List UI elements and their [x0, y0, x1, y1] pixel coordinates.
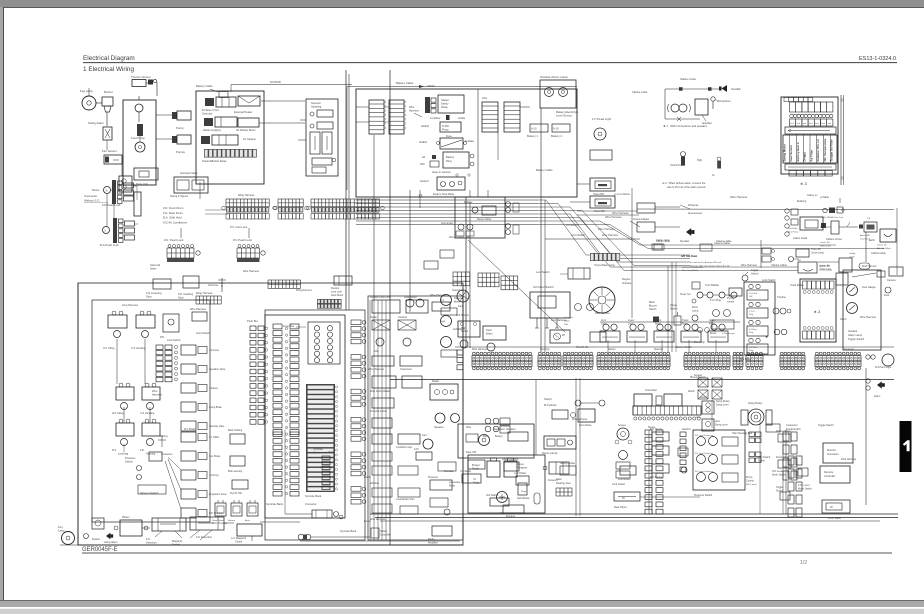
svg-text:H.P Litting: H.P Litting [112, 412, 124, 415]
svg-text:Symride Back: Symride Back [340, 529, 357, 533]
svg-text:Jack Barties: Jack Barties [517, 497, 530, 500]
svg-text:Twin Ballast: Twin Ballast [705, 283, 719, 287]
svg-text:★: ★ [765, 335, 768, 339]
svg-text:Room Lamps: Room Lamps [542, 451, 558, 455]
svg-text:F.D Level Detection: F.D Level Detection [695, 434, 714, 437]
svg-text:Wireout Switch: Wireout Switch [140, 491, 159, 495]
svg-text:Lift Switch: Lift Switch [566, 223, 579, 227]
svg-text:Lower JIb: Lower JIb [820, 241, 830, 244]
svg-text:swing alarm: swing alarm [104, 541, 117, 544]
svg-text:High: High [697, 159, 703, 162]
svg-text:1.H Head Light: 1.H Head Light [592, 117, 611, 121]
svg-text:F.D.: F.D. [140, 449, 145, 452]
svg-text:F.D Level Detection: F.D Level Detection [695, 452, 714, 455]
svg-text:Cabine Cube: Cabine Cube [680, 77, 697, 81]
svg-text:Radio: Radio [370, 315, 377, 319]
svg-text:Soquet: Soquet [618, 424, 626, 427]
svg-text:Wiper: Wiper [486, 333, 493, 336]
svg-text:F.D. Pearl Lock: F.D. Pearl Lock [164, 238, 184, 242]
svg-text:Swing 2-Speed: Swing 2-Speed [170, 194, 188, 198]
svg-text:A-Mile: A-Mile [458, 117, 466, 120]
svg-text:bed: bed [797, 123, 800, 125]
svg-text:Limb Switch: Limb Switch [762, 279, 776, 282]
svg-text:Drngty: Drngty [803, 152, 807, 162]
svg-text:Wire Harness: Wire Harness [741, 263, 758, 267]
svg-text:Horn: Horn [715, 420, 721, 423]
svg-text:Antenna: Antenna [208, 283, 218, 287]
svg-text:Toggle Switch: Toggle Switch [818, 424, 834, 427]
svg-text:F.D Level Detection: F.D Level Detection [695, 470, 714, 473]
svg-text:Remote: Remote [824, 470, 834, 474]
svg-text:10A: 10A [374, 349, 379, 353]
svg-text:Camera: Camera [887, 279, 896, 282]
svg-text:G.I 2/Sifle: G.I 2/Sifle [209, 437, 220, 439]
svg-text:Symride Back: Symride Back [266, 502, 284, 506]
svg-text:A.M. Process: A.M. Process [212, 522, 228, 525]
svg-text:Trayline: Trayline [777, 296, 786, 299]
svg-text:Ring: Ring [446, 159, 452, 163]
svg-text:Pump: Pump [176, 126, 184, 130]
svg-text:E.B. Property: E.B. Property [209, 512, 224, 515]
svg-text:Crows Lamp: Crows Lamp [819, 269, 833, 272]
svg-text:Wtr Temperature: Wtr Temperature [823, 138, 827, 161]
svg-text:Control: Control [746, 480, 754, 483]
svg-text:Solenoid: Solenoid [202, 112, 213, 116]
svg-text:Swing Lever: Swing Lever [715, 424, 728, 427]
svg-text:Lower Detector: Lower Detector [502, 458, 519, 461]
svg-text:Teamehert: Teamehert [452, 289, 464, 292]
svg-text:Monitor: Monitor [827, 448, 836, 452]
svg-text:Lkjhts: Lkjhts [564, 320, 571, 323]
svg-text:Squadron Valve: Squadron Valve [209, 368, 226, 371]
svg-text:Engine Stop Rady: Engine Stop Rady [433, 192, 455, 196]
svg-text:FusMax: FusMax [465, 140, 475, 143]
svg-text:Thermo Sensor: Thermo Sensor [131, 75, 151, 79]
svg-text:Selector: Selector [654, 348, 663, 351]
svg-text:Glass Lock: Glass Lock [820, 246, 832, 248]
svg-text:A/C Air Conditioner: A/C Air Conditioner [163, 220, 187, 224]
svg-text:Lower: Lower [628, 319, 634, 322]
svg-text:bed: bed [809, 123, 812, 125]
svg-text:Lowering: Lowering [118, 453, 129, 456]
svg-text:Battery Cable: Battery Cable [536, 168, 553, 172]
svg-text:Travel: Travel [682, 319, 689, 322]
svg-text:Sacked: Sacked [420, 180, 429, 183]
svg-text:Tower BO: Tower BO [593, 193, 604, 196]
svg-text:Diesel Valve: Diesel Valve [477, 217, 492, 221]
svg-text:Plug: Plug [749, 332, 754, 334]
svg-text:Tower BC: Tower BC [594, 210, 605, 213]
svg-text:Switch: Switch [544, 397, 552, 401]
svg-text:Speaker: Speaker [506, 427, 516, 431]
svg-text:Air Cleaner: Air Cleaner [243, 137, 256, 141]
svg-text:Rock Motor: Rock Motor [404, 296, 417, 299]
svg-text:bed: bed [815, 123, 818, 125]
svg-text:Lowercase: Lowercase [449, 481, 461, 484]
svg-text:Bull Learning: Bull Learning [228, 470, 243, 473]
svg-text:12V: 12V [414, 447, 419, 451]
svg-text:Block: Block [313, 452, 320, 455]
svg-text:★-2 : When without alarm, conn: ★-2 : When without alarm, connect the [662, 181, 706, 185]
svg-text:Chate A-n: Chate A-n [788, 227, 799, 230]
svg-text:F.Q Lowering: F.Q Lowering [146, 291, 162, 295]
svg-text:Controller: Controller [645, 388, 657, 392]
svg-text:Peterson: Peterson [428, 476, 439, 479]
svg-text:Emigration Snow: Emigration Snow [209, 493, 227, 496]
svg-text:Boots: Boots [710, 332, 717, 335]
svg-text:A8C: A8C [420, 163, 425, 166]
svg-text:Relay: Relay [449, 486, 456, 488]
svg-text:Region: Region [622, 277, 631, 281]
svg-text:Control Power: Control Power [670, 164, 685, 167]
svg-text:Hour: Hour [884, 294, 890, 297]
svg-text:E-Hame 2 Gol: E-Hame 2 Gol [202, 108, 219, 112]
svg-text:Wire Harness: Wire Harness [190, 307, 207, 311]
svg-text:Radise: Radise [464, 200, 473, 204]
svg-text:Radiator Wtr Lvl: Radiator Wtr Lvl [816, 139, 820, 162]
svg-text:4.0 Rear: 4.0 Rear [749, 328, 757, 331]
svg-text:Oryza Water Lamp: Oryza Water Lamp [594, 264, 616, 267]
svg-text:Fixed SW: Fixed SW [776, 456, 787, 459]
svg-text:Relay: Relay [655, 324, 662, 326]
svg-text:Wrap: Wrap [521, 490, 527, 493]
svg-text:Television: Television [827, 452, 839, 456]
svg-text:Motor: Motor [92, 188, 99, 192]
svg-text:Safety: Safety [441, 102, 449, 106]
svg-text:Switch: Switch [700, 396, 708, 399]
svg-text:B.A Pearl Lock: B.A Pearl Lock [100, 243, 119, 247]
svg-text:Alarm: Alarm [874, 395, 880, 398]
svg-text:Swing Motor: Swing Motor [782, 143, 786, 161]
svg-text:Pile Lamp: Pile Lamp [694, 341, 705, 344]
svg-text:Rocker: Rocker [92, 538, 100, 541]
svg-text:Swing Rotary: Swing Rotary [748, 402, 763, 405]
svg-text:Plug: Plug [749, 350, 754, 352]
svg-text:Wunna turterty Jws: Wunna turterty Jws [449, 236, 470, 239]
svg-text:P.D.: P.D. [160, 335, 165, 339]
svg-text:Wire Going Brake: Wire Going Brake [370, 390, 390, 393]
svg-text:Battery: Battery [446, 155, 455, 159]
svg-text:Wire Harness: Wire Harness [370, 518, 386, 521]
svg-text:R.C Brake: R.C Brake [184, 428, 196, 431]
svg-text:★-3: ★-3 [814, 310, 821, 314]
svg-text:Horn Relay: Horn Relay [579, 424, 592, 427]
svg-text:H-R: H-R [441, 321, 446, 324]
svg-text:Connector: Connector [84, 194, 97, 198]
svg-text:Fuel Sensor: Fuel Sensor [789, 144, 793, 161]
svg-text:Starter&Button Relay: Starter&Button Relay [202, 159, 227, 163]
svg-text:Deluth: Deluth [688, 390, 695, 393]
svg-text:& Messenger: & Messenger [722, 332, 735, 335]
svg-text:Wire Harness: Wire Harness [368, 367, 385, 371]
svg-text:Fan: Fan [422, 433, 427, 437]
svg-text:Wire: Wire [152, 389, 158, 393]
svg-text:Mopve: Mopve [517, 464, 525, 466]
svg-text:Wire Harness: Wire Harness [602, 233, 619, 237]
svg-text:Rearing Jiver: Rearing Jiver [556, 482, 571, 485]
svg-text:Relay: Relay [709, 324, 716, 326]
svg-text:Fhrep: Fhrep [442, 129, 449, 132]
svg-text:1 Electrical Wiring: 1 Electrical Wiring [83, 66, 134, 73]
svg-text:Toggle Switch: Toggle Switch [848, 337, 865, 341]
svg-text:Soquet: Soquet [694, 374, 702, 377]
svg-text:Wire: Wire [409, 105, 415, 109]
svg-text:J.Kluwer: J.Kluwer [209, 387, 218, 390]
svg-text:W: W [562, 333, 565, 337]
svg-text:Switch: Switch [649, 308, 657, 311]
svg-text:Fuel Pump: Fuel Pump [131, 136, 145, 140]
svg-text:Wod Harness: Wod Harness [862, 265, 877, 268]
svg-text:Crows Lamp: Crows Lamp [811, 252, 825, 255]
svg-text:Connector: Connector [161, 453, 173, 456]
svg-text:Wire Harness: Wire Harness [598, 227, 615, 231]
svg-text:Haim Rearing Jiver: Haim Rearing Jiver [732, 432, 753, 435]
svg-text:DC/DCR: DC/DCR [270, 80, 281, 84]
svg-text:Swing Lever: Swing Lever [716, 404, 729, 407]
svg-text:SW: SW [749, 296, 752, 298]
svg-text:Limit Switch: Limit Switch [167, 339, 181, 342]
svg-text:Jb: Jb [712, 174, 715, 177]
svg-text:★-1 : With microphone and spea: ★-1 : With microphone and speaker [663, 124, 707, 128]
svg-text:Speaker: Speaker [434, 425, 444, 429]
svg-text:F.D. Cashing: F.D. Cashing [178, 292, 194, 296]
svg-text:Switch: Switch [751, 273, 759, 276]
svg-text:Apeneuverer: Apeneuverer [688, 212, 703, 215]
svg-text:W.H JIB A/b Two Lock: W.H JIB A/b Two Lock [822, 216, 844, 219]
svg-text:GER0045F-E: GER0045F-E [82, 547, 118, 553]
svg-text:Wire Harness: Wire Harness [472, 348, 488, 351]
svg-text:Apers JIB: Apers JIB [860, 234, 870, 237]
svg-text:Symride Back: Symride Back [305, 494, 322, 498]
svg-text:Wing Harness: Wing Harness [196, 291, 213, 295]
svg-text:wire S-15 to E of the alarm gr: wire S-15 to E of the alarm ground [667, 186, 706, 189]
svg-text:Harness: Harness [152, 393, 162, 397]
svg-text:★-3: ★-3 [800, 182, 807, 186]
svg-text:Tank Unit: Tank Unit [136, 182, 148, 186]
svg-text:Governor: Governor [843, 347, 854, 351]
svg-text:Swing Rotate: Swing Rotate [560, 462, 576, 465]
svg-text:Snow Yen: Snow Yen [680, 293, 691, 296]
svg-text:★ mark brush, Antenna 3M conf: ★ mark brush, Antenna 3M conf [690, 261, 722, 264]
svg-text:Mode Switch: Mode Switch [772, 474, 786, 477]
svg-text:AGL: AGL [482, 96, 488, 100]
svg-text:Window: Window [370, 482, 379, 485]
svg-text:Torque Oil Filter: Torque Oil Filter [830, 139, 834, 162]
svg-text:Cabine cu: Cabine cu [807, 195, 818, 197]
svg-text:Cable: Cable [849, 257, 855, 259]
svg-text:Cabline Cruise: Cabline Cruise [826, 238, 842, 241]
svg-text:Clutch: Clutch [235, 541, 243, 544]
svg-text:N-1S: N-1S [531, 128, 537, 131]
svg-text:Wod Harness: Wod Harness [841, 458, 857, 461]
svg-text:Battery Cable: Battery Cable [196, 84, 213, 88]
svg-text:Swing Rotary: Swing Rotary [716, 400, 731, 403]
svg-text:Alarm Lamp: Alarm Lamp [848, 333, 863, 337]
svg-text:Pilots B. Ste: Pilots B. Ste [576, 346, 589, 349]
svg-text:Harness: Harness [409, 109, 419, 113]
svg-text:A/B Two Flask: A/B Two Flask [681, 255, 698, 258]
svg-text:P.C Pearl Lock: P.C Pearl Lock [233, 238, 252, 242]
svg-text:bed: bed [803, 123, 806, 125]
svg-text:Tracy JIB: Tracy JIB [811, 248, 821, 251]
svg-text:Swing: Swing [655, 320, 662, 322]
svg-text:Dusters Less Limit: Dusters Less Limit [370, 296, 391, 299]
svg-text:External Heater: External Heater [234, 110, 252, 114]
svg-text:Battery Batt A: Battery Batt A [796, 141, 800, 161]
svg-text:Wing Harness: Wing Harness [238, 193, 255, 197]
svg-text:ES13-1-0324.0: ES13-1-0324.0 [859, 56, 896, 62]
svg-text:Smot Wand: Smot Wand [212, 519, 224, 522]
svg-text:Winter: Winter [122, 515, 130, 519]
svg-text:Cable cable: Cable cable [656, 238, 670, 242]
svg-text:Catena Cable: Catena Cable [714, 241, 731, 245]
svg-text:Mode Switch: Mode Switch [798, 488, 812, 491]
svg-text:Starter: Starter [608, 348, 616, 351]
svg-text:N: N [105, 230, 107, 233]
svg-text:Connector: Connector [786, 424, 798, 427]
svg-text:Battery 1: Battery 1 [527, 134, 538, 138]
svg-text:F.D Pearl Lock: F.D Pearl Lock [102, 203, 121, 207]
svg-text:Wire Harness: Wire Harness [605, 215, 622, 219]
svg-text:Haim: Haim [556, 478, 562, 481]
svg-text:Cabbra Cable: Cabbra Cable [871, 252, 887, 255]
svg-text:1.0 Field: 1.0 Field [749, 293, 758, 295]
svg-text:Without S.G: Without S.G [84, 199, 100, 203]
svg-text:Spiraling: Spiraling [311, 105, 322, 109]
svg-text:I.O: I.O [473, 479, 476, 481]
svg-text:Fan: Fan [458, 304, 463, 308]
svg-text:Wire Harness: Wire Harness [612, 211, 629, 215]
svg-text:Radio Certginty: Radio Certginty [203, 128, 222, 132]
svg-text:Grid-a Adapter: Grid-a Adapter [633, 218, 650, 221]
svg-text:Starter: Starter [441, 98, 449, 102]
svg-text:Switch: Switch [125, 460, 133, 464]
svg-text:Poob Bre: Poob Bre [247, 319, 258, 323]
svg-text:Stop: Stop [178, 296, 184, 300]
svg-text:Imbacte: Imbacte [622, 281, 632, 285]
svg-text:F.D. Front Drum: F.D. Front Drum [163, 206, 184, 210]
svg-text:R.A Hand Light: R.A Hand Light [875, 366, 892, 369]
svg-text:N-1S: N-1S [553, 128, 559, 131]
svg-text:J.D.Cover: J.D.Cover [209, 349, 219, 352]
svg-text:F.D. Rear Drum: F.D. Rear Drum [163, 211, 183, 215]
svg-text:Steering: Steering [540, 348, 550, 351]
svg-text:Pilot: Pilot [564, 323, 569, 326]
svg-text:(F.D.Lever): (F.D.Lever) [746, 483, 757, 486]
svg-text:R.S: R.S [112, 449, 117, 452]
svg-text:Syring: Syring [160, 434, 168, 438]
svg-text:Steam: Steam [648, 426, 655, 429]
svg-text:Addbid: Addbid [419, 141, 427, 144]
svg-text:without cable and connect. Not: without cable and connect. Not to the Ji… [690, 265, 730, 268]
svg-text:Relay: Relay [441, 105, 448, 109]
svg-text:Buttery: Buttery [495, 435, 503, 438]
svg-text:Volt Starter: Volt Starter [486, 494, 499, 497]
svg-text:Converter: Converter [305, 502, 317, 506]
svg-text:Battery 2: Battery 2 [551, 134, 562, 138]
svg-text:Rear SW: Rear SW [466, 451, 477, 454]
svg-text:Buzzer: Buzzer [104, 90, 113, 94]
svg-text:J.O.Fung: J.O.Fung [209, 475, 219, 477]
svg-text:Condition Grip: Condition Grip [396, 446, 413, 449]
svg-text:Controller: Controller [380, 534, 391, 537]
svg-text:Hope to: Exterior: Hope to: Exterior [432, 171, 451, 174]
svg-text:Wire: Wire [466, 426, 472, 429]
svg-text:Belching: Belching [797, 200, 807, 203]
svg-text:Wire Harness: Wire Harness [730, 195, 748, 199]
svg-text:bed: bed [791, 123, 794, 125]
svg-text:Fuse Box: Fuse Box [283, 324, 295, 328]
svg-text:Valve: Valve [150, 267, 157, 271]
svg-text:Full Switch: Full Switch [456, 313, 469, 317]
svg-text:Limit Switch: Limit Switch [571, 233, 586, 237]
svg-text:P.C. Foot Lock: P.C. Foot Lock [230, 225, 248, 229]
svg-text:1/2: 1/2 [800, 560, 807, 566]
svg-text:Controller: Controller [824, 474, 836, 478]
svg-text:Wrivieras: Wrivieras [688, 204, 699, 207]
svg-text:Goldant: Goldant [848, 329, 857, 333]
svg-text:Limit Switch: Limit Switch [196, 331, 211, 335]
svg-text:Battery Electrolyte: Battery Electrolyte [556, 110, 579, 114]
svg-text:Won Yen (Hd-K): Won Yen (Hd-K) [682, 270, 698, 272]
svg-text:Cabine Carab: Cabine Carab [793, 237, 808, 240]
svg-text:Pressure Switch: Pressure Switch [694, 494, 713, 497]
svg-text:Housing: Housing [146, 453, 156, 456]
svg-text:U.S Hooding: U.S Hooding [140, 412, 155, 415]
svg-text:bed: bed [822, 123, 825, 125]
svg-text:Swing Alarm: Swing Alarm [88, 121, 105, 125]
svg-text:Interweld Valve: Interweld Valve [180, 171, 198, 175]
svg-text:A-mildew: A-mildew [430, 117, 441, 120]
svg-text:bed: bed [828, 123, 831, 125]
svg-text:Cabine cable: Cabine cable [632, 90, 648, 94]
svg-text:W: W [622, 496, 625, 500]
svg-text:Wire Harness: Wire Harness [860, 315, 877, 319]
svg-text:Pumps: Pumps [176, 150, 185, 154]
svg-text:Plug: Plug [749, 314, 754, 316]
svg-text:Amp Harness: Amp Harness [122, 303, 139, 307]
svg-text:FWD: FWD [696, 417, 701, 419]
svg-text:1.2 F.I: 1.2 F.I [749, 311, 755, 313]
svg-text:Crossover: Crossover [400, 367, 412, 371]
svg-text:Limb Guidet: Limb Guidet [612, 483, 625, 486]
svg-text:Cubby: Cubby [849, 253, 856, 255]
svg-text:Goodish: Goodish [731, 87, 741, 91]
svg-text:Superior: Superior [311, 101, 321, 105]
svg-text:Aceh: Aceh [245, 519, 251, 522]
svg-text:A8: A8 [422, 156, 426, 159]
svg-text:FT: FT [441, 299, 445, 303]
svg-text:Fog: Fog [58, 525, 63, 529]
svg-text:Fuel Gauge: Fuel Gauge [862, 285, 876, 289]
svg-text:Rote Harness: Rote Harness [595, 312, 611, 315]
svg-text:Povertia Crade: Povertia Crade [370, 410, 387, 413]
svg-text:Rear Wiper: Rear Wiper [614, 506, 627, 509]
svg-text:A-M Holder: A-M Holder [514, 472, 526, 475]
svg-text:I.C. Relay: I.C. Relay [460, 470, 472, 473]
svg-text:Green Jib: Green Jib [877, 244, 887, 247]
svg-text:Stable: Stable [758, 460, 765, 463]
svg-text:Lamp: Lamp [692, 310, 699, 313]
svg-text:M: M [106, 190, 108, 193]
svg-text:Earth: Earth [869, 239, 875, 242]
svg-text:Amplifier: Amplifier [428, 542, 438, 545]
svg-text:Fog Lamp: Fog Lamp [80, 89, 93, 93]
svg-text:U.P Lifting: U.P Lifting [103, 347, 115, 350]
svg-text:Pressure: Pressure [125, 456, 136, 460]
svg-text:F.O. Detection: F.O. Detection [196, 536, 213, 539]
svg-text:ys Lmc Dazne: ys Lmc Dazne [614, 193, 631, 196]
